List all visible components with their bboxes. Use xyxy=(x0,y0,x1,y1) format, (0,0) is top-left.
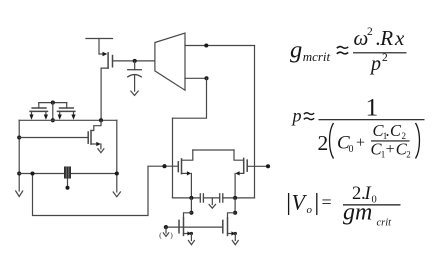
wire M1 source to rail A xyxy=(101,68,108,120)
wire U1 bottom output xyxy=(185,77,207,79)
capacitor C3 xyxy=(220,194,223,202)
transistor M3 xyxy=(88,120,101,149)
svg-text:+: + xyxy=(356,135,365,152)
equation 1: g_mcrit = w^2 Rx / p^2 xyxy=(290,26,407,75)
wire mirror center xyxy=(52,103,54,121)
ground right drop xyxy=(113,192,120,197)
node out2 xyxy=(266,164,270,168)
ground of C1 xyxy=(131,91,138,95)
node n3 xyxy=(162,164,166,168)
wire right drop xyxy=(116,120,118,192)
node left bus gate tap xyxy=(17,135,21,139)
ground of M6 xyxy=(188,241,194,245)
wire M1 gate to buffer input xyxy=(113,60,155,62)
current mirror M2a xyxy=(29,103,48,120)
wire n2 to tail xyxy=(173,78,207,118)
crystal X1 xyxy=(64,167,71,186)
wire M5 gate to output node xyxy=(247,165,268,167)
transistor M1 xyxy=(99,39,113,69)
current mirror M2b xyxy=(58,103,76,120)
buffer U1 (trapezoid) xyxy=(155,33,185,90)
svg-text:2: 2 xyxy=(318,131,329,155)
svg-text:gm: gm xyxy=(343,200,372,226)
svg-text:V: V xyxy=(292,190,308,215)
capacitor C2 xyxy=(200,194,203,202)
ground reference (in parentheses) xyxy=(163,227,168,236)
svg-text:p: p xyxy=(369,53,381,75)
svg-text:crit: crit xyxy=(377,218,393,229)
svg-text:2: 2 xyxy=(367,26,373,38)
wire rail B xyxy=(19,173,117,175)
svg-text:o: o xyxy=(307,204,313,216)
wire left bus xyxy=(18,120,20,191)
node out1 xyxy=(204,43,208,47)
svg-text:1: 1 xyxy=(381,150,386,160)
transistor M4 (diff pair left) xyxy=(178,159,191,176)
node left bus rail tap xyxy=(17,171,21,175)
wire right vertical drop xyxy=(254,46,256,198)
transistor M7 xyxy=(223,213,237,241)
wire bridge xyxy=(193,149,234,151)
supply bar VDD xyxy=(86,38,113,40)
wire rail B to M4 gate xyxy=(33,166,179,215)
wire M3 gate xyxy=(19,137,88,139)
node rail A / M1 source xyxy=(99,118,103,122)
node M7 drain xyxy=(233,211,237,215)
svg-text:+: + xyxy=(386,141,395,158)
node gate bias xyxy=(164,225,168,229)
equation 3: |Vo| = 2 I0 / gm_crit xyxy=(289,184,401,229)
node M6 drain xyxy=(189,211,193,215)
svg-text:2: 2 xyxy=(382,52,388,64)
wire M5 source down xyxy=(234,173,236,198)
wire M4 drain to bridge xyxy=(182,150,193,160)
wire tail branch xyxy=(172,118,174,198)
node rail B left xyxy=(30,171,34,175)
wire M7 drain vertical xyxy=(234,198,236,213)
svg-text:(: ( xyxy=(159,231,162,239)
transistor M5 (diff pair right) xyxy=(235,158,247,175)
wire rail C segments xyxy=(173,197,201,199)
svg-text:2: 2 xyxy=(406,150,411,160)
svg-text:g: g xyxy=(290,36,302,63)
node mirror bottom xyxy=(51,118,55,122)
wire M4 source down xyxy=(190,173,192,198)
svg-text:0: 0 xyxy=(349,144,354,155)
ground center caps xyxy=(209,198,215,208)
node mirror top xyxy=(51,101,55,105)
wire M6 drain vertical xyxy=(190,198,192,213)
wire bridge to M5 drain xyxy=(234,150,244,160)
node n2 xyxy=(204,76,208,80)
wire mirror top xyxy=(39,102,67,104)
svg-text:=: = xyxy=(322,192,332,212)
ground of M3 xyxy=(98,149,104,153)
svg-text:1: 1 xyxy=(366,92,379,121)
node crystal stub xyxy=(66,186,70,190)
ground left bus xyxy=(16,191,23,197)
node rail C left xyxy=(189,196,193,200)
transistor M6 xyxy=(179,213,193,241)
svg-text:): ) xyxy=(170,231,173,239)
wire mirror gates xyxy=(166,226,223,228)
node right drop xyxy=(115,171,119,175)
wire rail A xyxy=(19,119,117,121)
svg-text:C: C xyxy=(390,121,402,140)
capacitor C1 xyxy=(128,61,142,91)
node rail C right xyxy=(233,196,237,200)
svg-text:p: p xyxy=(291,106,302,126)
svg-text:mcrit: mcrit xyxy=(303,49,331,64)
node n1 xyxy=(133,59,137,63)
ground of M7 xyxy=(232,241,238,245)
svg-text:Rx: Rx xyxy=(379,26,406,50)
wire U1 top output xyxy=(185,45,255,47)
equation 2: p = 1 / 2(C0 + C1C2/(C1+C2)) xyxy=(291,92,425,159)
